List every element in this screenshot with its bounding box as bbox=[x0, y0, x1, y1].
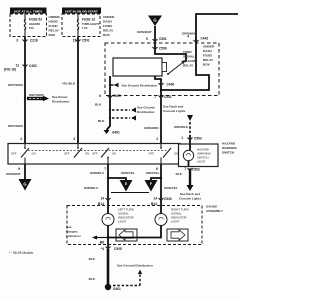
svg-text:B6: B6 bbox=[100, 241, 104, 245]
svg-text:C563: C563 bbox=[194, 137, 202, 141]
svg-text:Distribution: Distribution bbox=[52, 100, 69, 104]
svg-text:HOT AT ALL TIMES: HOT AT ALL TIMES bbox=[14, 9, 42, 13]
svg-text:RELAY: RELAY bbox=[183, 64, 194, 68]
svg-text:C501: C501 bbox=[82, 39, 90, 43]
svg-text:C551: C551 bbox=[164, 95, 172, 99]
svg-text:2: 2 bbox=[156, 137, 158, 141]
svg-text:5: 5 bbox=[146, 37, 148, 41]
svg-text:G401: G401 bbox=[113, 287, 121, 291]
svg-text:14: 14 bbox=[153, 197, 157, 201]
svg-text:BLK: BLK bbox=[89, 257, 96, 261]
svg-text:SIGNAL/: SIGNAL/ bbox=[183, 55, 196, 59]
svg-text:GRN/YEL: GRN/YEL bbox=[164, 186, 178, 190]
svg-text:WHT/GRN: WHT/GRN bbox=[29, 93, 45, 97]
svg-text:4: 4 bbox=[187, 35, 189, 39]
svg-text:GRN/BLU: GRN/BLU bbox=[90, 171, 105, 175]
svg-text:11: 11 bbox=[73, 39, 77, 43]
svg-text:ASSEMBLY: ASSEMBLY bbox=[206, 209, 224, 213]
svg-text:GRN/WHT: GRN/WHT bbox=[6, 172, 21, 176]
svg-text:RELAY: RELAY bbox=[103, 29, 114, 33]
svg-text:ON: ON bbox=[32, 152, 36, 156]
svg-text:HAZARD: HAZARD bbox=[222, 142, 236, 146]
svg-text:1: 1 bbox=[181, 136, 183, 140]
svg-text:WHT/GRN: WHT/GRN bbox=[8, 83, 24, 87]
svg-text:3: 3 bbox=[73, 137, 75, 141]
svg-text:See Ground: See Ground bbox=[137, 106, 155, 110]
svg-text:TURN LIGHTS: TURN LIGHTS bbox=[82, 22, 100, 26]
svg-text:FUSE/: FUSE/ bbox=[103, 24, 112, 28]
svg-text:11: 11 bbox=[16, 64, 20, 68]
svg-text:OFF: OFF bbox=[148, 152, 154, 156]
svg-text:C452: C452 bbox=[29, 64, 37, 68]
svg-text:Indicators: Indicators bbox=[66, 234, 81, 238]
svg-text:UNDER-: UNDER- bbox=[203, 45, 215, 49]
svg-text:See Ground Distribution: See Ground Distribution bbox=[122, 83, 158, 87]
svg-text:OFF: OFF bbox=[92, 152, 98, 156]
svg-text:RELAY: RELAY bbox=[203, 58, 214, 62]
svg-text:G: G bbox=[23, 182, 26, 187]
svg-text:C551: C551 bbox=[159, 37, 167, 41]
svg-text:OFF: OFF bbox=[11, 152, 17, 156]
svg-text:RED/BLK: RED/BLK bbox=[174, 125, 189, 129]
svg-text:Console Lights: Console Lights bbox=[179, 196, 202, 200]
svg-text:GRN/ORN: GRN/ORN bbox=[144, 126, 159, 130]
svg-text:C563: C563 bbox=[192, 168, 200, 172]
svg-text:GRN/WHT: GRN/WHT bbox=[182, 32, 197, 36]
svg-text:FUSE 13: FUSE 13 bbox=[82, 18, 95, 22]
svg-text:(FIG 18): (FIG 18) bbox=[4, 68, 16, 72]
svg-text:Distribution: Distribution bbox=[137, 110, 154, 114]
svg-text:Console Lights: Console Lights bbox=[163, 109, 186, 113]
svg-text:See: See bbox=[66, 225, 72, 229]
svg-text:WARNING: WARNING bbox=[222, 146, 238, 150]
svg-text:DASH: DASH bbox=[103, 20, 113, 24]
svg-text:FUSE/: FUSE/ bbox=[203, 54, 212, 58]
svg-text:OFF: OFF bbox=[64, 152, 70, 156]
svg-text:G: G bbox=[153, 18, 156, 23]
svg-text:DASH: DASH bbox=[203, 49, 213, 53]
svg-text:TURN: TURN bbox=[183, 50, 192, 54]
svg-text:HOOD: HOOD bbox=[49, 20, 59, 24]
svg-text:C442: C442 bbox=[201, 37, 209, 41]
svg-text:GAUGE: GAUGE bbox=[206, 205, 217, 209]
svg-text:BOX: BOX bbox=[103, 33, 111, 37]
svg-text:ON: ON bbox=[85, 152, 89, 156]
svg-text:UNDER-: UNDER- bbox=[103, 15, 115, 19]
svg-text:7.5A: 7.5A bbox=[82, 26, 88, 30]
svg-text:7: 7 bbox=[154, 95, 156, 99]
svg-text:BOX: BOX bbox=[49, 33, 57, 37]
svg-text:See Ground Distribution: See Ground Distribution bbox=[117, 264, 153, 268]
svg-text:RELAY: RELAY bbox=[49, 29, 60, 33]
svg-text:GRN/YEL: GRN/YEL bbox=[146, 171, 160, 175]
svg-text:BLK: BLK bbox=[95, 103, 102, 107]
svg-text:G401: G401 bbox=[112, 131, 120, 135]
svg-text:BLK: BLK bbox=[89, 277, 96, 281]
svg-text:7: 7 bbox=[104, 167, 106, 171]
svg-text:GRN/WHT: GRN/WHT bbox=[137, 30, 152, 34]
svg-text:Gauges,: Gauges, bbox=[66, 230, 78, 234]
svg-text:HOT IN ON OR START: HOT IN ON OR START bbox=[65, 9, 98, 13]
svg-text:GRN/BLU: GRN/BLU bbox=[84, 186, 99, 190]
svg-text:GRN/YEL: GRN/YEL bbox=[121, 171, 135, 175]
svg-text:LIGHT: LIGHT bbox=[118, 220, 127, 224]
svg-text:C540: C540 bbox=[164, 197, 172, 201]
svg-text:C406: C406 bbox=[167, 83, 175, 87]
svg-text:9: 9 bbox=[18, 167, 20, 171]
svg-text:SWITCH: SWITCH bbox=[222, 151, 235, 155]
svg-text:10A: 10A bbox=[29, 26, 34, 30]
svg-text:* : 98-99 Models: * : 98-99 Models bbox=[9, 251, 33, 255]
svg-text:14: 14 bbox=[100, 197, 104, 201]
svg-text:ON: ON bbox=[174, 152, 178, 156]
svg-text:BOX: BOX bbox=[203, 63, 211, 67]
svg-text:C506: C506 bbox=[159, 47, 167, 51]
svg-text:YEL/BLK: YEL/BLK bbox=[62, 82, 76, 86]
svg-text:See Dash and: See Dash and bbox=[163, 105, 183, 109]
svg-text:BLK: BLK bbox=[98, 119, 105, 123]
svg-text:UNDER-: UNDER- bbox=[49, 15, 61, 19]
svg-text:FUSE 53: FUSE 53 bbox=[29, 18, 42, 22]
svg-text:WHT/GRN: WHT/GRN bbox=[8, 124, 24, 128]
svg-text:BLK: BLK bbox=[176, 172, 183, 176]
svg-text:C216: C216 bbox=[30, 39, 38, 43]
svg-text:HAZARD: HAZARD bbox=[29, 22, 40, 26]
svg-text:*4: *4 bbox=[101, 247, 104, 251]
svg-text:4: 4 bbox=[20, 137, 22, 141]
svg-text:ON: ON bbox=[112, 152, 116, 156]
svg-text:LIGHT: LIGHT bbox=[171, 220, 180, 224]
svg-text:C405: C405 bbox=[113, 94, 121, 98]
svg-text:7: 7 bbox=[184, 167, 186, 171]
svg-text:3: 3 bbox=[16, 39, 18, 43]
svg-text:See Power: See Power bbox=[52, 95, 68, 99]
svg-text:See Dash and: See Dash and bbox=[180, 192, 200, 196]
svg-text:LIGHT: LIGHT bbox=[197, 160, 206, 164]
svg-text:6: 6 bbox=[99, 94, 101, 98]
svg-text:FUSE/: FUSE/ bbox=[49, 24, 58, 28]
svg-text:C505: C505 bbox=[114, 247, 122, 251]
